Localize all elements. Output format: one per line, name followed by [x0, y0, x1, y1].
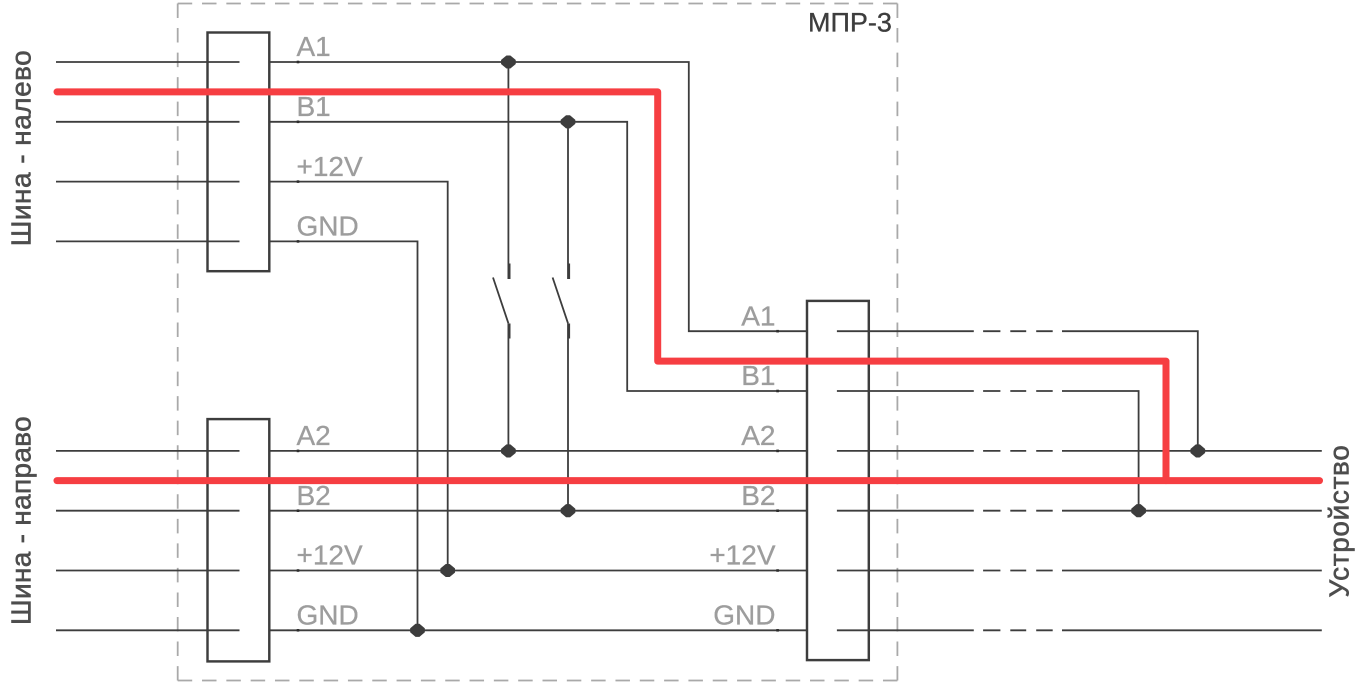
red highlighted wire path 2 [57, 477, 1320, 484]
wires right of connector J3 with dashed middle [837, 331, 1322, 630]
pin terminal J3 B2 [776, 509, 779, 512]
svg-text:МПР-3: МПР-3 [808, 7, 892, 37]
pin terminal J3 +12V [776, 569, 779, 572]
wire GND right [837, 629, 1322, 631]
pin terminal J1 +12V [297, 180, 300, 183]
svg-text:Устройство: Устройство [1324, 445, 1355, 598]
pin terminal J2 +12V [297, 569, 300, 572]
connector J2 (bottom left) [208, 419, 270, 661]
svg-text:+12V: +12V [709, 540, 775, 571]
wire A2 right [837, 450, 1322, 452]
junction dots (diamonds) [411, 56, 1205, 636]
wire bus B2 [56, 510, 240, 512]
svg-text:GND: GND [297, 211, 359, 242]
junction GND [411, 624, 424, 636]
svg-text:B2: B2 [297, 480, 331, 511]
connector J3 (right) [807, 301, 869, 660]
pin terminal J2 B2 [297, 509, 300, 512]
wire B2 right [837, 510, 1322, 512]
switch S2 [553, 122, 570, 511]
pin terminal J3 A1 [776, 330, 779, 333]
junction B1/S2 [561, 116, 574, 128]
junction A2/S1 [502, 445, 515, 457]
wire net GND vertical [269, 241, 417, 630]
wire net A1 [269, 62, 808, 331]
svg-text:Шина - налево: Шина - налево [6, 50, 37, 246]
junction B2/S2 [561, 505, 574, 517]
junction A1/S1 [502, 56, 515, 68]
svg-text:A2: A2 [297, 420, 331, 451]
wire net GND bottom row [269, 629, 808, 631]
connector J1 (top left) [208, 33, 270, 272]
pin terminal J2 A2 [297, 450, 300, 453]
svg-text:A1: A1 [741, 300, 775, 331]
svg-text:Шина - направо: Шина - направо [6, 416, 37, 625]
pin terminal J1 B1 [297, 121, 300, 124]
svg-text:B1: B1 [741, 360, 775, 391]
wire bus GND bottom [56, 629, 240, 631]
pin labels J3 [709, 300, 775, 630]
junction B1/B2 right [1132, 505, 1145, 517]
switch S1 [493, 62, 510, 451]
wire net +12V vertical [269, 182, 447, 571]
pin terminal J3 A2 [776, 450, 779, 453]
svg-text:+12V: +12V [297, 540, 363, 571]
wire bus +12V bottom [56, 570, 240, 572]
pin terminal J2 GND [297, 629, 300, 632]
pin terminal J3 GND [776, 629, 779, 632]
wire net A2 [269, 450, 808, 452]
svg-text:B1: B1 [297, 91, 331, 122]
wire A1 right [837, 331, 1198, 451]
svg-text:A1: A1 [297, 31, 331, 62]
svg-text:GND: GND [713, 600, 775, 631]
wire bus GND top [56, 240, 240, 242]
wire net +12V bottom row [269, 570, 808, 572]
wire net B2 [269, 510, 808, 512]
junction A1/A2 right [1191, 445, 1204, 457]
pin terminal J1 A1 [297, 61, 300, 64]
wire +12V right [837, 570, 1322, 572]
pin labels J1 [297, 31, 363, 241]
wire B1 right [837, 391, 1139, 511]
svg-text:+12V: +12V [297, 151, 363, 182]
svg-text:B2: B2 [741, 480, 775, 511]
junction +12V [441, 565, 454, 577]
wire bus +12V top [56, 181, 240, 183]
pin terminal J3 B1 [776, 390, 779, 393]
red highlighted wire path 1 [57, 92, 1166, 481]
wire bus B1 [56, 121, 240, 123]
svg-text:A2: A2 [741, 420, 775, 451]
svg-text:GND: GND [297, 600, 359, 631]
pin labels J2 [297, 420, 363, 630]
pin terminal J1 GND [297, 240, 300, 243]
wire bus A2 [56, 450, 240, 452]
wire bus A1 [56, 61, 240, 63]
wire net B1 [269, 122, 808, 391]
module boundary МПР-3 (dashed) [178, 4, 898, 681]
bus wires left top (Шина - налево) [56, 62, 240, 630]
